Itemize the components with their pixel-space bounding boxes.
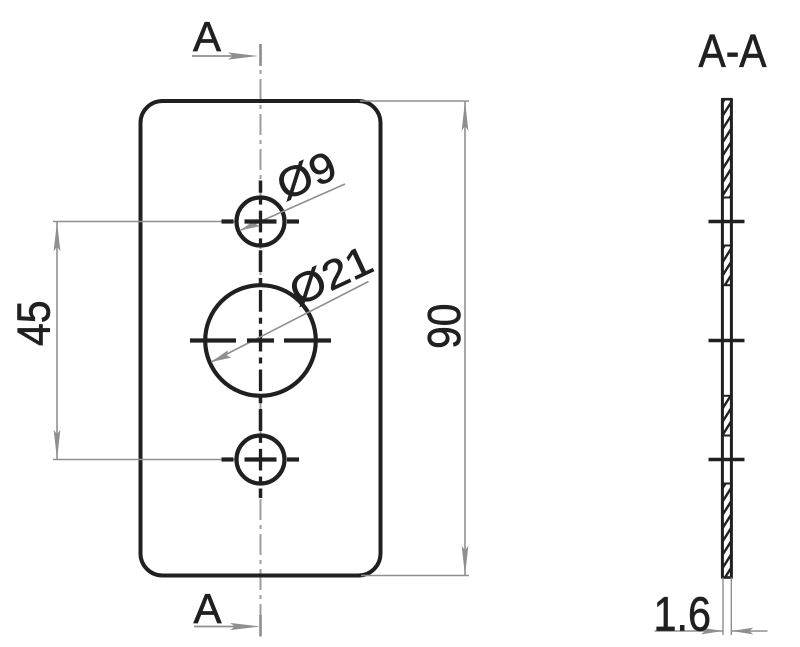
svg-text:Ø9: Ø9 (270, 142, 344, 209)
svg-text:Ø21: Ø21 (282, 237, 379, 315)
section cutting line A-A (vertical dash-dot centerline) (260, 44, 262, 637)
leader line for Ø9 with arrowhead (240, 184, 345, 231)
section bar top edge (721, 98, 733, 101)
view arrow bottom: line, arrowhead, tick (194, 615, 261, 637)
center mark: top hole horizontal (222, 219, 300, 223)
section bar bottom edge (721, 576, 733, 579)
section hole edge lines (721, 198, 733, 484)
svg-text:A: A (193, 585, 221, 632)
svg-text:A: A (193, 13, 221, 60)
dimension 1.6: extension lines (722, 578, 724, 636)
center mark: big hole horizontal (190, 338, 331, 342)
dimension 90: extension line top (360, 100, 469, 102)
hole centerline dashes over holes (259, 181, 262, 499)
svg-text:1.6: 1.6 (654, 589, 712, 642)
view arrow top: line, arrowhead, tick (192, 44, 261, 66)
svg-text:90: 90 (418, 304, 470, 349)
hole Ø21 centre (205, 285, 316, 396)
section bar left edge (721, 99, 724, 577)
center mark: bottom hole horizontal (222, 457, 300, 461)
dimension 45: extension line top (53, 221, 253, 223)
section bar right edge (730, 99, 733, 577)
svg-text:A-A: A-A (699, 25, 767, 77)
section hole center ticks (709, 222, 745, 460)
dimension 45: dimension line with arrows (54, 222, 61, 460)
section hatching (cut material) (721, 86, 733, 597)
dimension 90: extension line bottom (361, 575, 469, 577)
dimension 1.6: dimension lines with arrows (655, 628, 768, 635)
plate outline (rounded rectangle, front view) (141, 101, 381, 576)
svg-text:45: 45 (8, 301, 60, 347)
leader line for Ø21 with arrowhead (211, 282, 368, 363)
hole Ø9 top (237, 198, 285, 246)
hole Ø9 bottom (237, 436, 285, 484)
dimension 45: extension line bottom (53, 459, 253, 461)
hole centerline (vertical black dashed) (259, 181, 262, 499)
dimension 90: dimension line with arrows (462, 101, 469, 576)
